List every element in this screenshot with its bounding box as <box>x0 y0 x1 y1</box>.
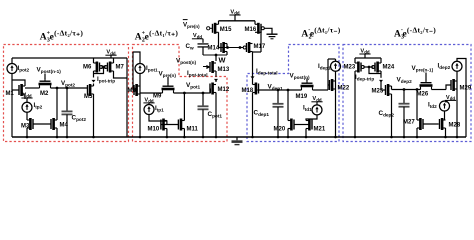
svg-text:M16: M16 <box>245 27 257 33</box>
svg-text:M4: M4 <box>60 123 69 129</box>
svg-text:M2: M2 <box>40 91 49 97</box>
svg-text:M14: M14 <box>208 46 220 52</box>
svg-text:M22: M22 <box>338 86 350 92</box>
svg-text:M1: M1 <box>6 91 15 97</box>
svg-text:M3: M3 <box>21 124 30 130</box>
svg-text:M11: M11 <box>187 127 199 133</box>
svg-text:M19: M19 <box>296 94 308 100</box>
svg-text:M15: M15 <box>220 27 232 33</box>
svg-text:M17: M17 <box>254 44 266 50</box>
svg-text:M21: M21 <box>314 127 326 133</box>
svg-text:M10: M10 <box>148 127 160 133</box>
svg-text:M20: M20 <box>274 127 286 133</box>
svg-text:W: W <box>219 56 226 65</box>
svg-text:M7: M7 <box>116 65 125 71</box>
svg-text:M9: M9 <box>153 94 162 100</box>
svg-text:M29: M29 <box>460 86 472 92</box>
svg-text:M5: M5 <box>84 94 93 100</box>
svg-text:M26: M26 <box>417 92 429 98</box>
svg-text:M8: M8 <box>128 88 137 94</box>
svg-text:M24: M24 <box>383 65 395 71</box>
svg-text:M12: M12 <box>218 87 230 93</box>
svg-text:M6: M6 <box>83 65 92 71</box>
svg-text:M25: M25 <box>372 89 384 95</box>
svg-text:M23: M23 <box>344 65 356 71</box>
svg-text:M28: M28 <box>449 123 461 129</box>
svg-text:M13: M13 <box>218 67 230 73</box>
svg-text:M27: M27 <box>403 120 415 126</box>
